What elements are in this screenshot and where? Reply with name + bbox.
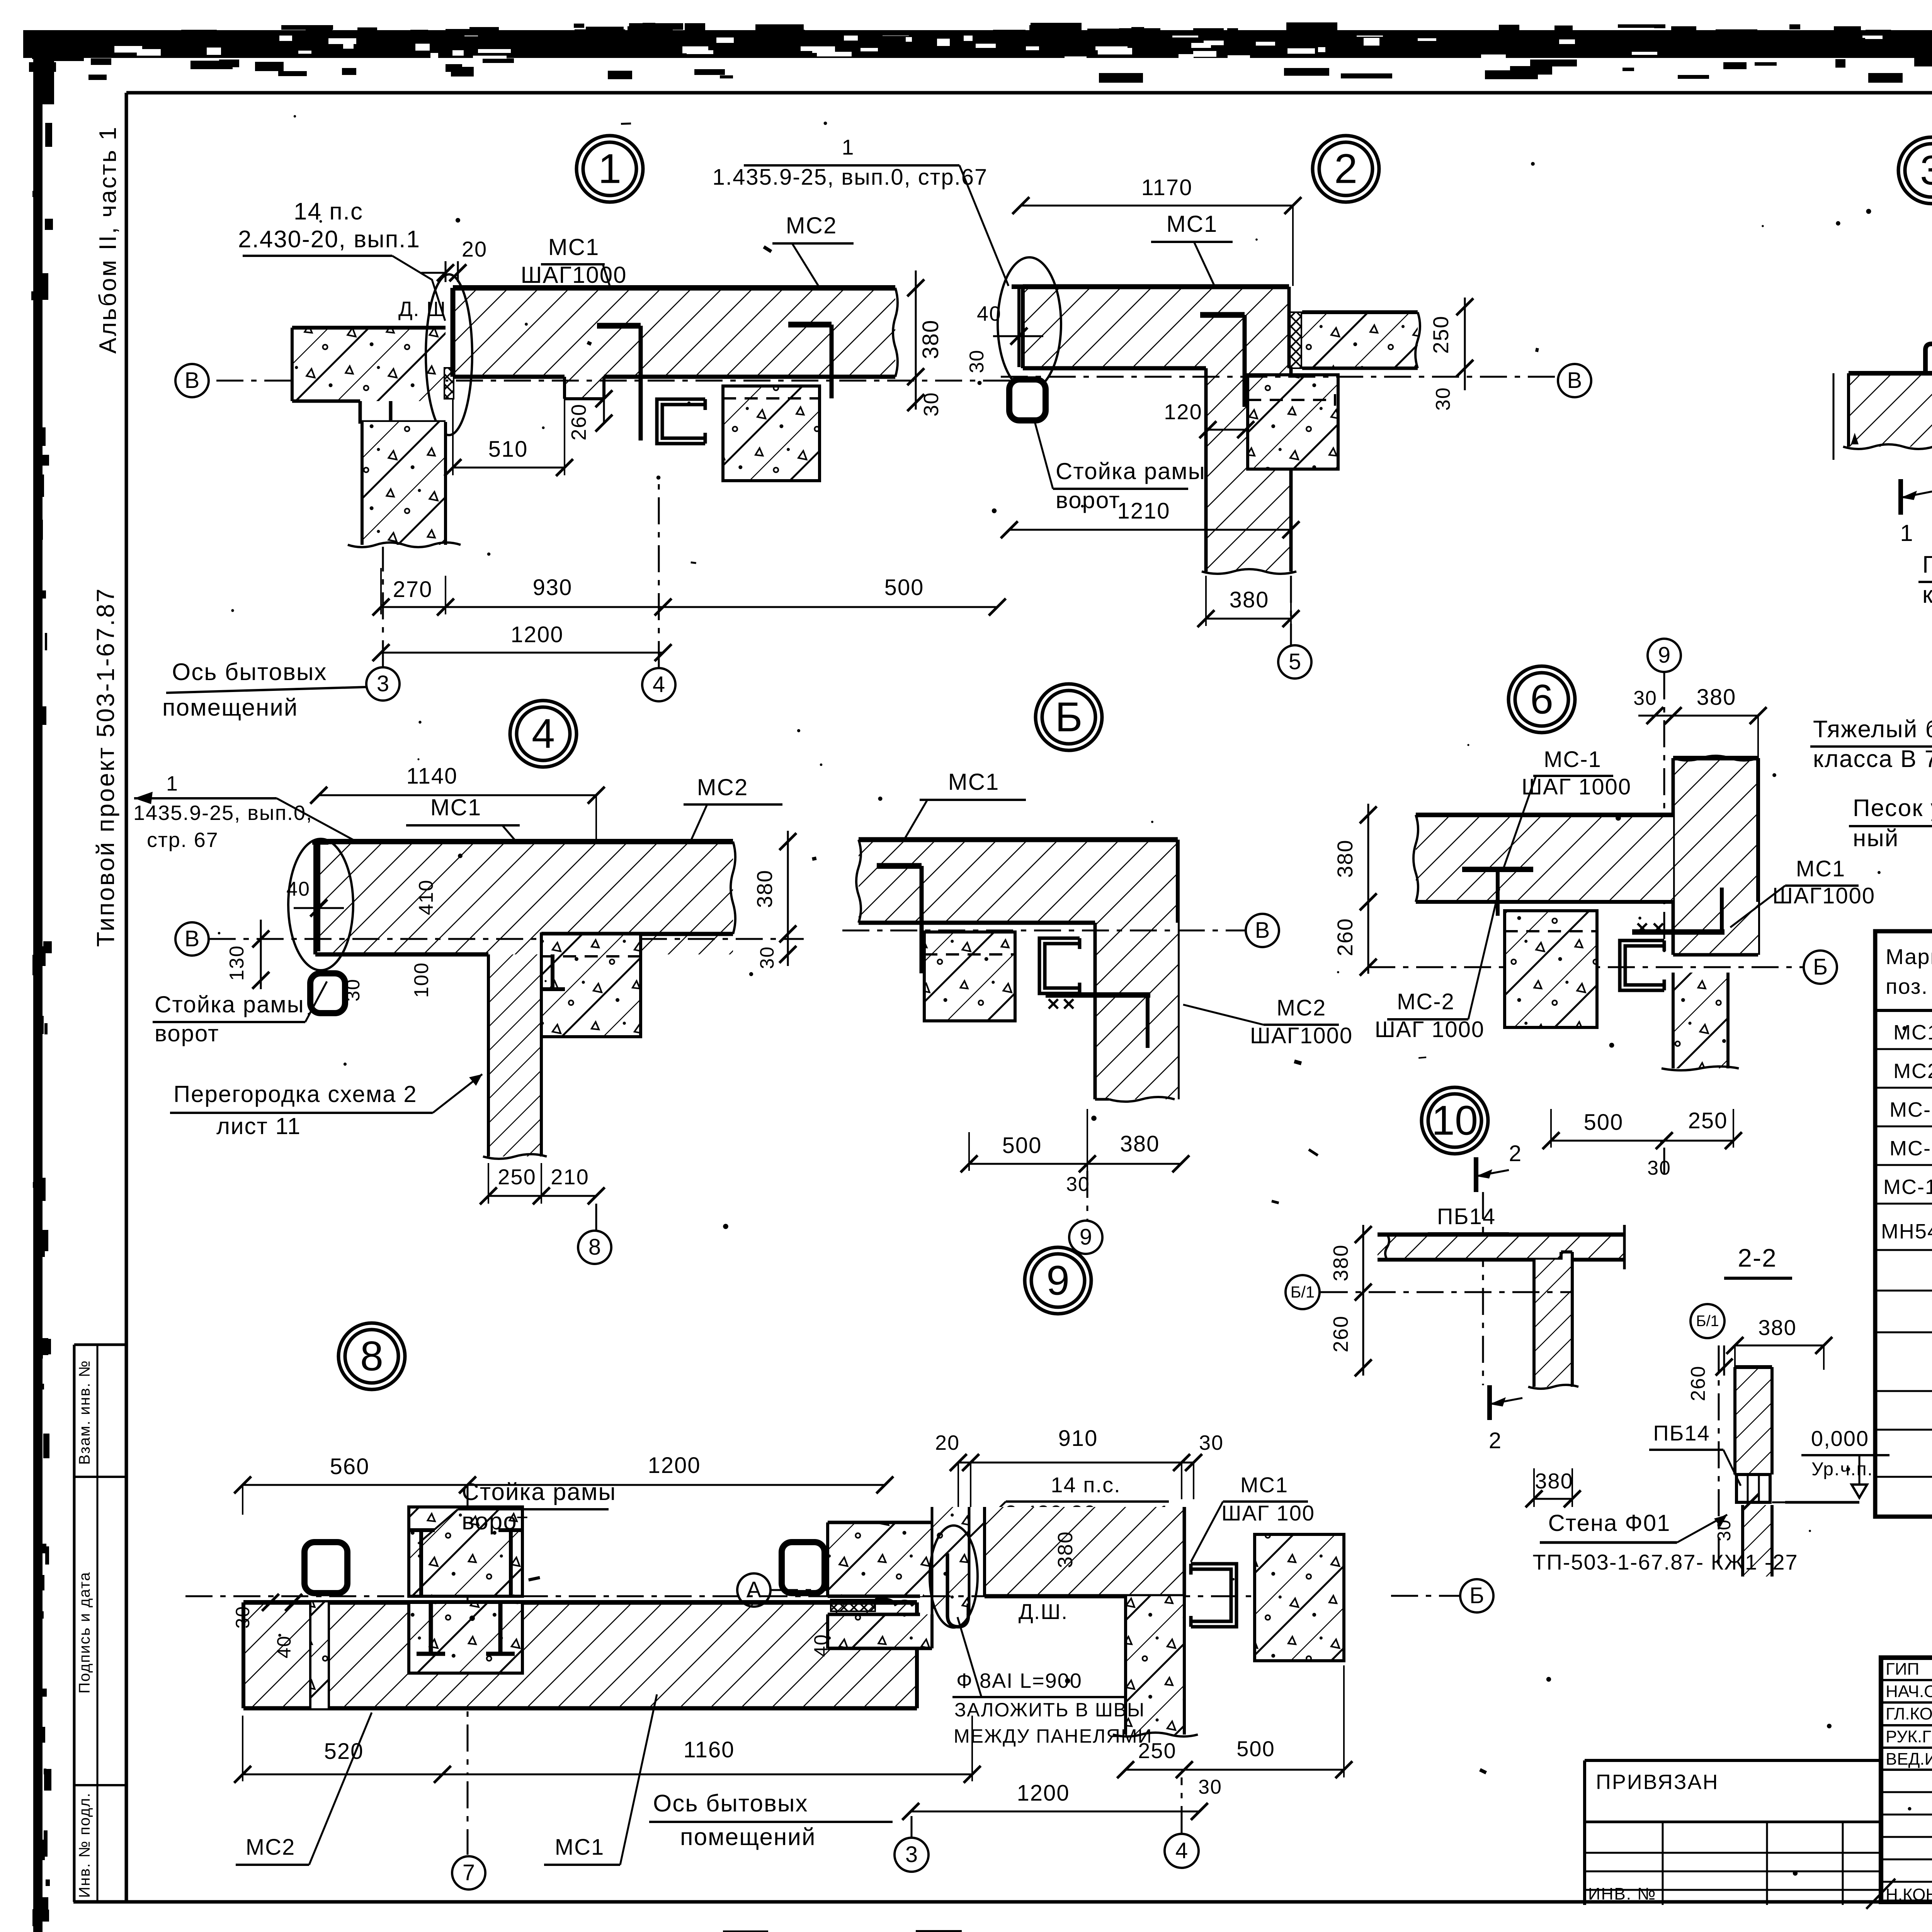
svg-text:40: 40 [286,878,310,900]
svg-text:7: 7 [463,1860,475,1885]
node 9 left block [828,1522,932,1596]
svg-text:30: 30 [1432,387,1454,411]
svg-text:260: 260 [1333,918,1357,956]
node 6 axis Б [1368,966,1803,968]
node 2 precast slab right [1302,312,1418,368]
svg-text:поз.: поз. [1886,974,1928,998]
svg-text:9: 9 [1658,643,1670,668]
svg-text:ворот: ворот [462,1508,529,1535]
svg-text:В: В [185,368,200,393]
node 8 joint in band [409,1602,522,1673]
node 1 anchor MC2 [788,322,832,328]
svg-text:1200: 1200 [510,622,563,647]
node B dims 500 380 [969,1163,1181,1165]
svg-text:МС1: МС1 [1240,1473,1288,1497]
svg-text:МС-1: МС-1 [1544,747,1602,772]
svg-text:30: 30 [1199,1431,1224,1454]
svg-text:ШАГ 100: ШАГ 100 [1221,1501,1315,1525]
svg-text:30: 30 [232,1605,253,1629]
svg-text:380: 380 [1758,1315,1796,1340]
svg-text:ПБ14: ПБ14 [1653,1421,1710,1445]
svg-text:4: 4 [532,710,555,757]
svg-text:ШАГ1000: ШАГ1000 [1772,883,1875,908]
node B anchor MC1 [877,863,922,869]
node 6 band [1416,815,1673,902]
svg-text:МЕЖДУ ПАНЕЛЯМИ: МЕЖДУ ПАНЕЛЯМИ [954,1725,1153,1747]
svg-text:40: 40 [977,302,1002,325]
svg-text:Стена Ф01: Стена Ф01 [1548,1510,1670,1536]
node 9 slab seal [831,1600,875,1611]
node 6 dims 30 380 [1638,715,1758,717]
svg-text:Ось бытовых: Ось бытовых [172,659,327,685]
svg-text:4: 4 [653,672,665,697]
node 9 joint column [932,1507,969,1614]
node 4 dims 250 210 [488,1195,596,1197]
svg-text:30: 30 [1198,1776,1222,1798]
drawing frame bottom line [73,1900,1932,1904]
svg-text:30: 30 [966,349,988,373]
node B channel [1039,938,1080,993]
node 1 right dim 380/30 [915,270,917,410]
svg-text:Стойка рамы: Стойка рамы [155,992,304,1017]
svg-text:2: 2 [1334,145,1357,192]
svg-text:30: 30 [342,978,364,1002]
svg-text:1140: 1140 [406,764,458,789]
section 2-2 lintel block [1736,1475,1770,1502]
node 8 axis horizontal [185,1595,947,1597]
svg-text:Стойка рамы: Стойка рамы [462,1479,616,1505]
node 8 axis circle 7 [467,1781,469,1855]
svg-text:ЗАЛОЖИТЬ В ШВЫ: ЗАЛОЖИТЬ В ШВЫ [954,1699,1145,1721]
svg-text:ный: ный [1853,825,1899,852]
svg-text:МС-1: МС-1 [1889,1098,1932,1121]
svg-text:250: 250 [498,1165,536,1189]
svg-text:ворот: ворот [155,1020,219,1046]
node 10 slab [1378,1235,1624,1260]
svg-text:Б: Б [1469,1583,1484,1608]
node 2 dim 380 bottom [1206,618,1291,620]
svg-text:1200: 1200 [648,1453,701,1478]
node 4 partition wall [488,954,541,1156]
node 2 anchor dashed [1248,399,1335,401]
svg-text:МС1: МС1 [548,234,600,260]
svg-text:380: 380 [1230,587,1269,612]
svg-text:Б: Б [1813,954,1828,980]
svg-text:класса В 7,5: класса В 7,5 [1813,746,1932,772]
svg-text:МС1: МС1 [430,794,482,820]
svg-text:30: 30 [920,392,943,417]
svg-text:380: 380 [1120,1131,1160,1156]
svg-text:500: 500 [1236,1736,1275,1761]
section 2-2 wall below [1743,1505,1772,1577]
svg-text:8: 8 [360,1333,383,1379]
node 2 dotted block [1248,375,1338,469]
svg-text:ИНВ. №: ИНВ. № [1588,1884,1656,1903]
privyazan box [1585,1759,1881,1762]
svg-text:ГЛ.КОНСТР: ГЛ.КОНСТР [1886,1704,1932,1723]
node 10 circle [1422,1087,1488,1154]
svg-text:500: 500 [1002,1133,1042,1158]
svg-text:380: 380 [1054,1531,1077,1568]
node 3 block ticks [1833,373,1835,460]
node 2 circle [1313,136,1379,202]
node 6 dims 500 250 [1551,1140,1733,1142]
node 1 axis extension lines [382,547,384,667]
node 1 axis circle 3 [366,667,400,701]
node 4 post [310,973,345,1013]
node 6 axis circle 9 [1648,639,1681,672]
svg-text:120: 120 [1164,400,1202,424]
svg-text:МС1: МС1 [1167,211,1218,237]
node 2 wall below [1206,368,1291,571]
node 6 circle [1509,666,1575,733]
svg-text:Ось бытовых: Ось бытовых [653,1790,808,1817]
svg-text:Д.Ш.: Д.Ш. [1019,1599,1068,1624]
section 2-2 dim 380 [1735,1345,1824,1347]
svg-text:ПРИВЯЗАН: ПРИВЯЗАН [1596,1770,1719,1794]
svg-text:260: 260 [1687,1366,1709,1401]
svg-text:1170: 1170 [1141,175,1193,200]
nkontr slash [1866,1879,1895,1909]
svg-text:Альбом II, часть 1: Альбом II, часть 1 [95,126,121,354]
node 6 anchor MC-1 [1462,867,1533,872]
node 9 right dotted block [1255,1534,1344,1661]
privyazan grid [1585,1821,1881,1823]
svg-text:МС2: МС2 [246,1835,295,1860]
drawing frame top line [126,91,1932,95]
node 9 lower column [1126,1596,1184,1735]
svg-text:лист 11: лист 11 [216,1113,301,1139]
svg-text:410: 410 [415,879,437,915]
node 8 posts [304,1542,347,1593]
node 2 corner anchor plate [1017,287,1020,367]
svg-text:380: 380 [1535,1469,1573,1493]
node 9 masonry band [985,1507,1184,1596]
svg-text:Типовой проект 503-1-67.87: Типовой проект 503-1-67.87 [92,587,119,947]
svg-text:14 п.с.: 14 п.с. [1051,1473,1121,1497]
node 9 axis circle 3 [895,1838,929,1872]
spec table grid [1875,931,1932,1517]
node 1 channel [657,399,705,444]
svg-text:1.435.9-25, вып.0, стр.67: 1.435.9-25, вып.0, стр.67 [713,165,988,190]
node 1 joint seal [444,368,454,399]
svg-text:МС2: МС2 [786,213,837,238]
node B axis circle 9 small [1087,1171,1088,1220]
svg-text:4: 4 [1175,1838,1188,1863]
node 4 anchors T [551,954,554,989]
svg-text:ШАГ 1000: ШАГ 1000 [1375,1017,1485,1042]
svg-text:МС1: МС1 [555,1835,604,1860]
svg-text:9: 9 [1046,1257,1070,1304]
node 6 channel [1620,940,1664,990]
svg-text:Д. Ш: Д. Ш [398,298,446,321]
node 1 masonry band [453,288,895,377]
svg-text:1: 1 [842,135,854,159]
svg-text:130: 130 [226,945,248,981]
svg-text:250: 250 [1429,315,1453,354]
svg-text:ворот: ворот [1056,487,1120,513]
node 6 wall lower part [1673,902,1758,955]
node 4 corner anchor plate [317,844,320,951]
node 2 dim 1210 [1009,529,1291,531]
svg-text:2: 2 [1489,1428,1502,1453]
svg-text:МС1: МС1 [1796,856,1845,881]
node 2 joint seal [1290,312,1301,368]
left side stamp strip [74,1345,126,1902]
node 9 circle [1025,1247,1091,1314]
svg-text:ШАГ 1000: ШАГ 1000 [1522,774,1631,799]
drawing frame left line [125,93,128,1902]
svg-text:2.430-20, вып.1: 2.430-20, вып.1 [238,226,420,253]
node 10 section cut line [1482,1192,1484,1385]
node 1 bottom dims 270 930 500 [381,606,997,608]
node 8 upper column [409,1507,522,1596]
svg-text:Подпись и дата: Подпись и дата [76,1571,93,1694]
node 8 circle [338,1323,405,1389]
svg-text:210: 210 [551,1165,589,1189]
svg-text:ПБ14: ПБ14 [1437,1204,1496,1229]
node 2 axis B [1001,376,1558,378]
svg-text:380: 380 [1333,839,1357,878]
node 1 joint oval [426,274,472,435]
svg-text:3: 3 [377,671,389,696]
svg-text:260: 260 [1329,1315,1352,1352]
svg-text:270: 270 [393,577,433,602]
node 1 axis B line [216,380,1020,382]
node 2 anchor MC1 [1200,312,1245,318]
svg-text:В: В [185,926,200,951]
node 3 section mark 1 bottom [1898,479,1903,515]
svg-text:Тяжелый бетон: Тяжелый бетон [1813,716,1932,743]
svg-text:А: А [747,1577,762,1602]
node 2 dim 120 [1208,429,1246,431]
svg-text:40: 40 [273,1635,295,1658]
node B circle [1036,684,1102,750]
node 6 lower dotted column [1673,973,1728,1068]
svg-text:ВЕД.ИНЖ.: ВЕД.ИНЖ. [1886,1750,1932,1769]
svg-text:класса В25 со шлифованием: класса В25 со шлифованием [1922,582,1932,608]
node 8 band left strip [310,1602,329,1708]
svg-text:380: 380 [752,869,777,908]
svg-text:МС2: МС2 [1893,1060,1932,1083]
scan border: top noise band [23,22,1932,83]
svg-text:РУК.ГР.: РУК.ГР. [1886,1727,1932,1746]
node 4 dim 1140 [319,794,596,796]
svg-text:380: 380 [1329,1244,1352,1281]
node 9 axis circle A [737,1573,770,1607]
node 9 axis circle 4 [1165,1834,1199,1868]
svg-text:520: 520 [324,1739,364,1764]
node 4 circle [510,701,577,767]
node 9 dim 1200 [911,1811,1199,1813]
section 2-2 axis line [1718,1345,1720,1569]
node 8 top dims 560 1200 [243,1484,885,1486]
svg-text:1435.9-25, вып.0,: 1435.9-25, вып.0, [133,801,313,825]
node 9 hook anchor [947,1553,968,1627]
node 1 anchor MC1 [597,323,641,329]
svg-text:3: 3 [905,1842,918,1867]
section 2-2 wall [1735,1367,1772,1475]
node B masonry band [859,840,1178,923]
svg-text:ТП-503-1-67.87- КЖ1 -27: ТП-503-1-67.87- КЖ1 -27 [1532,1550,1798,1574]
node 4 dim 130 [260,920,262,989]
svg-text:Б: Б [1055,694,1083,740]
svg-text:14 п.с: 14 п.с [294,198,363,225]
svg-text:500: 500 [884,575,924,600]
node 2 post [1009,379,1046,420]
svg-text:9: 9 [1080,1225,1092,1250]
node 10 section mark 2 bottom [1487,1385,1492,1420]
node 6 dotted block [1505,911,1597,1027]
svg-text:8: 8 [588,1235,601,1260]
node 1 dotted block [723,386,820,481]
svg-text:Покрытие из бетона: Покрытие из бетона [1922,551,1932,578]
node 4 axis circle 8 small [595,1204,597,1231]
node 8 axis vertical [467,1485,469,1774]
svg-text:Ф 8АI L=900: Ф 8АI L=900 [956,1669,1082,1692]
svg-text:помещений: помещений [162,694,298,721]
node 3 circle [1898,137,1932,204]
svg-text:500: 500 [1584,1110,1624,1135]
svg-text:Б/1: Б/1 [1696,1313,1719,1330]
svg-text:Ур.ч.п.: Ур.ч.п. [1811,1459,1873,1480]
svg-text:510: 510 [488,437,528,462]
svg-text:1160: 1160 [684,1737,735,1762]
svg-text:В: В [1255,918,1270,943]
svg-text:МС-15: МС-15 [1883,1175,1932,1199]
node 2 axis circle 5 [1290,576,1292,646]
svg-text:1: 1 [1900,520,1913,546]
svg-text:помещений: помещений [680,1824,816,1850]
svg-text:МС1: МС1 [1893,1021,1932,1044]
node 1 axis circle 4 [642,668,675,701]
node B anchor MC2 [1046,992,1150,998]
scan border: left edge strip [31,30,78,1932]
node 4 right edge dims 380 30 [787,831,789,966]
svg-text:380: 380 [1697,685,1736,710]
node 1 circle [577,136,643,202]
svg-text:Н.КОНТР.: Н.КОНТР. [1886,1885,1932,1904]
svg-text:380: 380 [918,320,943,359]
svg-text:3: 3 [1920,147,1932,194]
svg-text:МС2: МС2 [697,774,748,800]
node 10 axis circle B/1 [1286,1275,1320,1309]
svg-text:100: 100 [410,962,433,998]
node 9 channel [1191,1564,1236,1627]
node 9 joint oval [930,1526,978,1628]
svg-text:ШАГ1000: ШАГ1000 [1250,1023,1353,1048]
node B axis B [842,930,1245,932]
node 4 masonry band [315,842,733,954]
svg-text:1: 1 [166,772,179,795]
svg-text:910: 910 [1058,1426,1098,1451]
node 4 joint oval [288,839,353,970]
node 8 band [243,1602,917,1708]
node 10 dim 380 bottom [1534,1498,1572,1500]
svg-text:2-2: 2-2 [1738,1243,1777,1272]
node 2 joint oval [998,257,1061,390]
svg-text:ШАГ1000: ШАГ1000 [521,262,627,288]
node 1 dim 1200 [381,652,663,654]
svg-text:Марка,: Марка, [1886,944,1932,969]
svg-text:5: 5 [1289,649,1301,674]
svg-text:стр. 67: стр. 67 [147,828,219,852]
svg-text:МС2: МС2 [1277,995,1326,1020]
svg-text:1200: 1200 [1017,1781,1070,1806]
node 1 axis circle B [175,364,209,397]
node 9 top dims 20 910 30 [958,1462,1194,1464]
svg-text:В: В [1567,368,1582,393]
node 3 channel cap [1925,344,1932,373]
node 8 bottom dims 520 1160 [243,1774,972,1776]
svg-text:Песок утрамбован-: Песок утрамбован- [1853,795,1932,821]
svg-text:20: 20 [462,237,487,261]
node 10 dims 380 260 [1362,1225,1364,1376]
node 9 dims 250 500 [1126,1769,1344,1771]
svg-text:10: 10 [1432,1097,1478,1144]
node 6 axis circle Б right [1663,1148,1665,1182]
svg-text:ГИП: ГИП [1886,1660,1919,1679]
node 9 left block lower [828,1614,932,1648]
node B corner wall [1095,923,1178,1099]
node B dotted block [924,932,1015,1021]
svg-text:6: 6 [1530,676,1553,723]
node 6 anchor MC1 [1632,929,1725,935]
svg-text:20: 20 [935,1431,960,1454]
svg-text:Взам. инв. №: Взам. инв. № [76,1360,93,1465]
node 2 dim 250/30 [1464,298,1466,390]
node 1 band step [565,377,604,399]
section 2-2 axis circle B/1 [1690,1304,1725,1338]
svg-text:Перегородка схема 2: Перегородка схема 2 [173,1081,417,1107]
node 6 wall [1673,758,1758,902]
svg-text:30: 30 [756,946,778,969]
svg-text:930: 930 [533,575,573,600]
svg-text:НАЧ.ОТД.: НАЧ.ОТД. [1886,1682,1932,1701]
svg-text:2: 2 [1509,1141,1522,1166]
svg-text:260: 260 [567,403,590,440]
node 2 dim 1170 [1021,205,1293,207]
svg-text:МН548: МН548 [1881,1220,1932,1243]
svg-text:1: 1 [598,145,621,192]
title block outer [1881,1658,1932,1902]
node 10 section mark 2 top [1474,1157,1478,1192]
node 1 precast slab [292,328,446,401]
node 1 dim 510 [453,467,565,469]
svg-text:30: 30 [1633,687,1657,709]
svg-text:МС-2: МС-2 [1889,1137,1932,1160]
svg-text:1210: 1210 [1117,498,1170,524]
node 2 masonry band [1023,287,1289,368]
axis circle Б bottom [1460,1579,1493,1612]
svg-text:МС1: МС1 [948,769,1000,795]
svg-text:0,000: 0,000 [1811,1426,1869,1451]
svg-text:Инв. № подл.: Инв. № подл. [76,1792,93,1898]
node 3 hatched block [1849,373,1932,447]
node 9 axis line [828,1595,1345,1597]
svg-text:250: 250 [1688,1108,1728,1133]
svg-text:560: 560 [330,1454,370,1479]
node 4 dotted block [541,934,641,1037]
svg-text:Б/1: Б/1 [1291,1283,1315,1301]
scan border: bottom noise band [37,1929,1932,1932]
node 10 wall [1534,1260,1572,1387]
svg-text:МС-2: МС-2 [1397,989,1455,1014]
node 6 left dims 380 260 [1367,804,1369,974]
node 1 column below [362,422,446,545]
svg-text:Стойка рамы: Стойка рамы [1056,458,1206,484]
svg-text:250: 250 [1138,1738,1176,1763]
